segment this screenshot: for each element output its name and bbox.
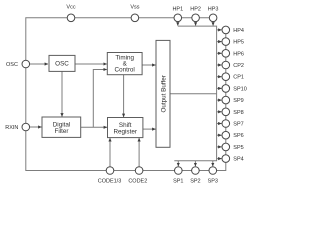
svg-text:Control: Control	[115, 67, 135, 74]
svg-text:CP1: CP1	[233, 75, 244, 81]
svg-text:CODE2: CODE2	[128, 179, 147, 185]
svg-text:Vss: Vss	[130, 5, 139, 11]
svg-text:SP7: SP7	[233, 122, 243, 128]
svg-text:SP6: SP6	[233, 133, 243, 139]
svg-text:OSC: OSC	[55, 61, 69, 68]
svg-text:HP4: HP4	[233, 28, 244, 34]
svg-text:SP10: SP10	[233, 86, 246, 92]
svg-text:SP1: SP1	[173, 179, 183, 185]
svg-text:Register: Register	[113, 129, 136, 136]
svg-text:HP2: HP2	[190, 7, 201, 13]
svg-text:SP9: SP9	[233, 98, 243, 104]
svg-text:SP5: SP5	[233, 145, 243, 151]
svg-text:HP6: HP6	[233, 51, 244, 57]
svg-text:Filter: Filter	[55, 128, 69, 135]
svg-text:HP5: HP5	[233, 40, 244, 46]
svg-text:Vcc: Vcc	[66, 5, 75, 11]
svg-text:SP4: SP4	[233, 157, 243, 163]
svg-text:SP2: SP2	[190, 179, 200, 185]
svg-text:OSC: OSC	[6, 62, 18, 68]
svg-text:SP3: SP3	[208, 179, 218, 185]
svg-text:CP2: CP2	[233, 63, 244, 69]
svg-text:HP3: HP3	[208, 7, 219, 13]
svg-text:SP8: SP8	[233, 110, 243, 116]
svg-text:Output Buffer: Output Buffer	[160, 75, 167, 112]
svg-text:CODE1/3: CODE1/3	[98, 179, 122, 185]
svg-text:HP1: HP1	[172, 7, 183, 13]
svg-text:RXIN: RXIN	[5, 125, 18, 131]
